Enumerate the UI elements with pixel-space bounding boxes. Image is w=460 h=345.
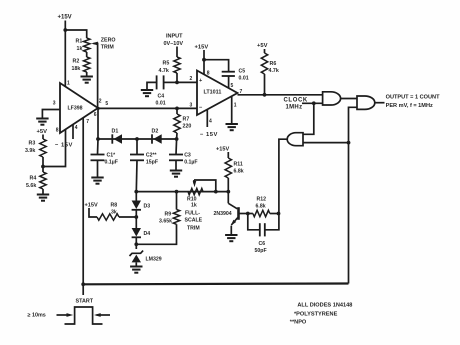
- resistor R3 3.9k: [25, 139, 46, 157]
- zener LM329: [130, 251, 162, 263]
- ground below C4: [141, 90, 153, 96]
- ground below R2: [81, 72, 93, 83]
- pulse width arrow right: [94, 313, 110, 317]
- svg-text:≥ 10ms: ≥ 10ms: [28, 312, 46, 318]
- pin 3 label LT1011: [190, 103, 193, 109]
- label ZERO TRIM: [101, 37, 116, 50]
- svg-text:R2: R2: [73, 59, 80, 65]
- pin 2 label LT1011: [190, 76, 193, 82]
- svg-text:50pF: 50pF: [255, 248, 267, 254]
- wire junction to R1 top: [65, 30, 86, 38]
- wire pin 6 down to hold-cap node: [97, 108, 99, 139]
- svg-text:R8: R8: [111, 202, 118, 208]
- svg-text:ALL DIODES 1N4148: ALL DIODES 1N4148: [297, 302, 352, 308]
- +15V supply label (R8): [85, 202, 98, 208]
- svg-text:2: 2: [99, 98, 102, 104]
- svg-text:3k: 3k: [111, 209, 117, 215]
- note POLYSTYRENE: [294, 311, 338, 317]
- svg-text:C1*: C1*: [107, 152, 117, 158]
- svg-text:0.01: 0.01: [239, 75, 249, 81]
- resistor R8 3k: [89, 202, 136, 220]
- capacitor C3 0.1uF: [169, 139, 198, 165]
- ground at emitter: [225, 235, 237, 241]
- svg-text:R1: R1: [76, 38, 83, 44]
- svg-text:− 15V: − 15V: [55, 142, 73, 148]
- wire node to LT1011 pin 2: [177, 81, 197, 83]
- wire C2 bottom down to trim line: [135, 160, 138, 191]
- svg-text:+15V: +15V: [216, 146, 229, 152]
- wire LF398 output (pin 5) to LT1011 pin 3: [98, 107, 197, 109]
- wire pin 3 input to ground: [42, 110, 60, 119]
- resistor R1 1k zero-trim pot: [76, 38, 90, 52]
- wire G2 lower input from feedback: [349, 107, 358, 283]
- wire R9 bottom to LM329 node: [136, 224, 176, 244]
- svg-text:C4: C4: [158, 94, 165, 100]
- wire R7 to diode line: [176, 133, 178, 139]
- R1 wiper arrow to pin 2 line: [91, 42, 98, 108]
- wire LF398 pin 7 down to start line: [82, 118, 84, 284]
- pin 5 label: [105, 101, 108, 107]
- svg-text:0.01: 0.01: [156, 100, 166, 106]
- node C3/R7 top: [175, 137, 179, 141]
- pin 3 label: [53, 100, 56, 106]
- svg-text:8: 8: [207, 71, 210, 77]
- node wiper tie: [214, 190, 218, 194]
- op-amp U1 LF398 sample-and-hold: [60, 83, 98, 133]
- resistor R11 6.8k: [225, 152, 244, 178]
- wire branch down to G3 top input: [303, 103, 314, 134]
- pin 8 label LT1011: [207, 71, 210, 77]
- svg-text:+5V: +5V: [257, 43, 268, 49]
- svg-text:+15V: +15V: [85, 202, 98, 208]
- capacitor C4 0.01: [147, 75, 177, 106]
- node: +15V junction: [63, 28, 67, 32]
- svg-text:TRIM: TRIM: [101, 44, 115, 50]
- wire G3 lower input: [303, 142, 349, 144]
- svg-text:1k: 1k: [77, 46, 83, 52]
- wire +5V to R3: [42, 135, 44, 140]
- ground at pin 1: [226, 124, 238, 130]
- svg-text:+15V: +15V: [195, 45, 209, 51]
- svg-text:220: 220: [183, 124, 192, 130]
- svg-text:0.1µF: 0.1µF: [184, 159, 197, 165]
- svg-text:D2: D2: [152, 129, 159, 135]
- label -15V (LF398): [55, 142, 73, 148]
- label OUTPUT: [386, 94, 441, 109]
- diode D2: [152, 129, 162, 144]
- transistor Q1 2N3904: [214, 192, 248, 235]
- wire D3 to node: [135, 211, 137, 229]
- svg-text:SCALE: SCALE: [185, 218, 203, 224]
- node R9 top: [175, 190, 179, 194]
- svg-text:1: 1: [234, 103, 237, 109]
- svg-text:LM329: LM329: [146, 256, 162, 262]
- node output/pin6: [97, 107, 100, 110]
- svg-text:2N3904: 2N3904: [214, 211, 232, 217]
- +15V supply label (top left): [58, 15, 72, 21]
- svg-text:C6: C6: [259, 241, 266, 247]
- svg-text:R12: R12: [257, 196, 267, 202]
- +15V supply label (LT1011): [195, 45, 209, 51]
- svg-text:R11: R11: [234, 161, 243, 167]
- svg-text:4.7k: 4.7k: [159, 68, 169, 74]
- svg-text:3: 3: [53, 100, 56, 106]
- node G3 lower input / feedback: [347, 141, 351, 145]
- svg-text:D1: D1: [112, 129, 119, 135]
- diode D3: [132, 201, 151, 210]
- pin 4 label LT1011: [209, 118, 212, 124]
- wire R3 to node: [42, 157, 44, 167]
- svg-text:1: 1: [67, 81, 70, 87]
- svg-text:5.6k: 5.6k: [26, 183, 36, 189]
- svg-text:+5V: +5V: [37, 129, 48, 135]
- node D4/LM329/R9: [134, 238, 138, 249]
- pin 2 label: [99, 98, 102, 104]
- pin 4 label: [75, 125, 78, 131]
- wire full-scale trim line: [136, 191, 228, 193]
- pin 6 label: [94, 112, 97, 118]
- capacitor C6 50pF: [248, 214, 279, 254]
- wire START stub: [82, 284, 84, 295]
- wire R5 to pin 2 node: [176, 73, 178, 82]
- svg-text:D3: D3: [144, 204, 151, 210]
- svg-text:1k: 1k: [191, 202, 197, 208]
- svg-text:R7: R7: [183, 116, 190, 122]
- wire junction down to LF398 pin 1: [64, 30, 66, 87]
- svg-text:5: 5: [105, 101, 108, 107]
- label START: [76, 299, 94, 305]
- note ALL DIODES 1N4148: [297, 302, 352, 308]
- label CLOCK 1MHz: [284, 98, 308, 111]
- svg-text:TRIM: TRIM: [187, 225, 200, 231]
- svg-text:INPUT: INPUT: [166, 34, 183, 40]
- svg-text:**NPO: **NPO: [290, 319, 307, 325]
- wire node to LF398 pin 8: [43, 129, 66, 166]
- svg-text:LF398: LF398: [68, 105, 83, 111]
- svg-text:6.8k: 6.8k: [234, 169, 244, 175]
- wire LT1011 pin 1 to ground: [231, 96, 233, 123]
- node base/R12/C6: [246, 212, 250, 216]
- node +15V/C5: [202, 58, 206, 62]
- svg-text:4: 4: [75, 125, 78, 131]
- resistor R4 5.6k: [26, 167, 46, 190]
- svg-text:LT1011: LT1011: [204, 89, 222, 95]
- capacitor C1 0.1uF: [91, 139, 118, 165]
- svg-text:*POLYSTYRENE: *POLYSTYRENE: [294, 311, 338, 317]
- ground below C3: [170, 160, 182, 176]
- svg-text:3.65k: 3.65k: [159, 219, 172, 225]
- svg-text:8: 8: [56, 128, 59, 134]
- svg-text:PER mV, f = 1MHz: PER mV, f = 1MHz: [386, 103, 433, 109]
- wire G3 output to one-shot network: [279, 139, 287, 213]
- svg-text:FULL-: FULL-: [185, 210, 200, 216]
- node pin3/R7: [175, 107, 179, 111]
- wire +15V down to junction: [64, 21, 66, 31]
- ground below C1: [91, 160, 103, 183]
- wire input to R5: [176, 47, 178, 58]
- pulse width arrow left: [57, 313, 74, 317]
- labels R10 1k FULL-SCALE TRIM: [185, 197, 203, 232]
- svg-text:4: 4: [209, 118, 212, 124]
- svg-text:R5: R5: [163, 60, 170, 66]
- svg-text:4.7k: 4.7k: [269, 68, 279, 74]
- svg-text:START: START: [76, 299, 94, 305]
- pin 7 label: [86, 119, 89, 125]
- node R8 tie: [134, 215, 138, 219]
- pin 1 label LT1011: [234, 103, 237, 109]
- pin 7 label LT1011: [240, 89, 243, 95]
- R10 wiper: [193, 180, 216, 192]
- svg-text:− 15V: − 15V: [200, 132, 218, 138]
- svg-text:1MHz: 1MHz: [286, 104, 303, 110]
- note NPO: [290, 319, 307, 325]
- svg-text:R6: R6: [270, 61, 277, 67]
- svg-text:6: 6: [94, 112, 97, 118]
- svg-text:C3: C3: [184, 152, 191, 158]
- label >= 10ms: [28, 312, 46, 318]
- node G1 lower input branch: [312, 101, 316, 105]
- label -15V (LT1011): [200, 132, 218, 138]
- svg-text:C5: C5: [239, 68, 246, 74]
- capacitor C2 15pF: [130, 139, 158, 165]
- node R6/clock: [263, 93, 267, 97]
- svg-text:0.1µF: 0.1µF: [105, 159, 118, 165]
- ground below R4: [37, 189, 49, 201]
- node C2 top: [135, 137, 139, 141]
- +5V supply label (R6): [257, 43, 268, 49]
- ground below LM329: [130, 262, 142, 272]
- +5V supply label (left): [37, 129, 48, 135]
- wire diode line: [98, 138, 177, 140]
- minus marker pin3: [199, 105, 203, 111]
- svg-text:ZERO: ZERO: [101, 37, 116, 43]
- node collector/R10/R11: [226, 190, 230, 194]
- AND gate G2: [357, 96, 375, 109]
- svg-text:3.9k: 3.9k: [25, 148, 35, 154]
- svg-text:15pF: 15pF: [146, 159, 158, 165]
- pin 8 label: [56, 128, 59, 134]
- svg-text:18k: 18k: [72, 66, 81, 72]
- svg-text:R3: R3: [29, 140, 36, 146]
- AND gate G3 (mirrored): [287, 133, 303, 146]
- wire R6 to clock line: [264, 74, 266, 95]
- pin 5 label LT1011: [231, 83, 234, 89]
- node pin2/C4: [175, 81, 179, 85]
- wire LT1011 pin 4 to -15V: [206, 110, 208, 128]
- svg-text:0V–10V: 0V–10V: [164, 41, 184, 47]
- resistor R10 1k full-scale trim: [188, 188, 203, 194]
- svg-text:6.8k: 6.8k: [256, 203, 266, 209]
- svg-text:R9: R9: [165, 212, 172, 218]
- comparator U2 LT1011: [197, 71, 238, 116]
- resistor R5 4.7k: [159, 57, 181, 74]
- AND gate G1: [323, 92, 341, 105]
- node C2 bottom: [134, 190, 138, 194]
- wire feedback line bottom: [83, 282, 348, 285]
- start pulse waveform: [65, 307, 103, 324]
- svg-text:C2**: C2**: [146, 152, 158, 158]
- label INPUT 0V-10V: [164, 34, 184, 47]
- wire trim line down to D3: [135, 192, 137, 201]
- resistor R7 220: [174, 108, 192, 133]
- node R3/R4 junction: [41, 165, 45, 169]
- svg-text:+15V: +15V: [58, 15, 72, 21]
- node R12 right: [277, 212, 281, 216]
- svg-text:5: 5: [231, 83, 234, 89]
- wire G1 output to G2: [341, 98, 357, 100]
- +15V supply label (R11): [216, 146, 229, 152]
- wire R11 to collector node: [227, 178, 229, 192]
- pin 1 label: [67, 81, 70, 87]
- svg-text:OUTPUT = 1 COUNT: OUTPUT = 1 COUNT: [386, 94, 441, 100]
- resistor R12 6.8k: [248, 196, 279, 216]
- resistor R9 3.65k: [159, 192, 180, 225]
- plus marker pin2: [199, 78, 203, 84]
- resistor R2 18k: [72, 52, 90, 72]
- wire +15V down to pin 8: [203, 50, 205, 75]
- diode D1: [112, 129, 123, 144]
- ground at pin 3: [36, 119, 48, 125]
- wire LT1011 output to gate A: [238, 94, 323, 96]
- node hold-cap: [96, 137, 100, 141]
- svg-text:3: 3: [190, 103, 193, 109]
- wire LF398 pin 4 to -15V: [72, 125, 74, 140]
- svg-text:R4: R4: [30, 175, 37, 181]
- svg-text:7: 7: [86, 119, 89, 125]
- capacitor C5 0.01: [204, 60, 249, 88]
- node START junction: [81, 282, 85, 286]
- resistor R6 4.7k pull-up: [261, 49, 279, 74]
- wire G2 output: [375, 102, 385, 104]
- diode D4: [132, 228, 151, 237]
- svg-text:D4: D4: [144, 231, 151, 237]
- wire G1 lower input stub: [302, 102, 323, 104]
- svg-text:2: 2: [190, 76, 193, 82]
